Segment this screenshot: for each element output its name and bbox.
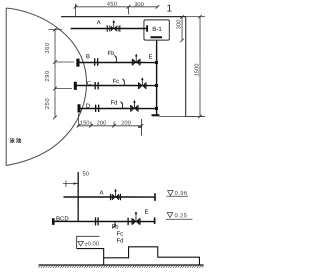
svg-text:250: 250 xyxy=(45,98,51,109)
svg-text:B: B xyxy=(86,54,90,60)
svg-text:B-1: B-1 xyxy=(152,26,162,33)
svg-text:E: E xyxy=(149,55,153,61)
svg-text:Fd: Fd xyxy=(116,239,123,245)
svg-text:Fb: Fb xyxy=(108,51,116,57)
svg-text:Fd: Fd xyxy=(111,101,118,107)
svg-text:360: 360 xyxy=(45,42,51,53)
svg-text:A: A xyxy=(97,20,101,26)
svg-text:200: 200 xyxy=(97,121,107,127)
svg-text:1500: 1500 xyxy=(195,64,201,77)
svg-text:150: 150 xyxy=(80,121,90,127)
svg-text:290: 290 xyxy=(45,70,51,81)
svg-text:300: 300 xyxy=(176,20,182,30)
svg-text:200: 200 xyxy=(121,121,131,127)
svg-text:C: C xyxy=(87,81,92,87)
svg-text:A: A xyxy=(99,190,103,196)
svg-text:300: 300 xyxy=(134,2,144,8)
svg-text:50: 50 xyxy=(82,171,88,177)
svg-text:1: 1 xyxy=(167,4,173,15)
svg-text:450: 450 xyxy=(107,2,118,8)
svg-text:0.25: 0.25 xyxy=(174,213,187,219)
svg-text:Fb: Fb xyxy=(111,225,119,231)
svg-text:BCD: BCD xyxy=(56,216,69,222)
svg-text:E: E xyxy=(144,210,148,216)
svg-text:±0.00: ±0.00 xyxy=(84,241,98,247)
svg-text:D: D xyxy=(86,104,91,110)
svg-text:泳池: 泳池 xyxy=(9,136,21,144)
svg-text:Fc: Fc xyxy=(113,79,120,85)
svg-text:0.96: 0.96 xyxy=(175,191,188,197)
svg-text:Fc: Fc xyxy=(116,232,123,238)
